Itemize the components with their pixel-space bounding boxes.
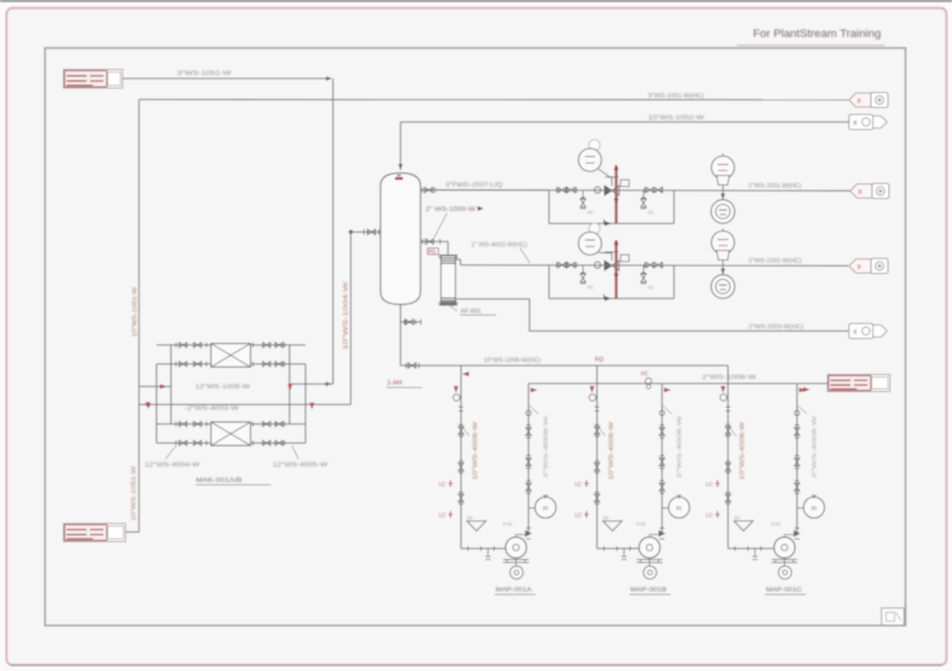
svg-text:AF-001: AF-001	[461, 308, 482, 315]
svg-text:10"WS-4006-W: 10"WS-4006-W	[740, 422, 746, 480]
svg-text:X: X	[857, 99, 861, 105]
svg-text:3"WS-1051-W: 3"WS-1051-W	[177, 70, 231, 77]
svg-text:10"WS-4006-W: 10"WS-4006-W	[609, 422, 615, 480]
svg-text:2"WS-1003-W(HC): 2"WS-1003-W(HC)	[749, 324, 804, 331]
svg-text:3"P&ID-2007-LIQ: 3"P&ID-2007-LIQ	[446, 182, 503, 189]
svg-text:X: X	[853, 121, 857, 127]
svg-text:10"WS-1001-W: 10"WS-1001-W	[132, 287, 139, 337]
svg-text:2"WS-4008-W: 2"WS-4008-W	[677, 415, 683, 478]
svg-text:1" WS-4002-W(HC): 1" WS-4002-W(HC)	[471, 242, 527, 249]
svg-text:10"WS-1051-W: 10"WS-1051-W	[131, 466, 138, 521]
svg-text:12"WS-4004-W: 12"WS-4004-W	[145, 462, 200, 469]
svg-text:ST: ST	[603, 516, 609, 521]
svg-text:LC: LC	[575, 513, 582, 519]
svg-text:PI: PI	[812, 507, 817, 513]
svg-text:3"WS-1051-W(HC): 3"WS-1051-W(HC)	[648, 93, 704, 100]
svg-text:2"WS-4008-W: 2"WS-4008-W	[812, 415, 818, 478]
svg-text:1-AH: 1-AH	[387, 380, 402, 387]
svg-text:MAP-001A: MAP-001A	[496, 587, 533, 594]
svg-text:2"WS-1002-W(HC): 2"WS-1002-W(HC)	[749, 258, 802, 265]
svg-text:PI: PI	[543, 507, 548, 513]
svg-text:LC: LC	[439, 482, 446, 488]
svg-text:MAP-001B: MAP-001B	[631, 587, 668, 594]
svg-text:ST: ST	[734, 516, 740, 521]
svg-text:12"WS-1005-W: 12"WS-1005-W	[195, 384, 250, 391]
svg-text:X: X	[853, 330, 857, 336]
svg-text:10"WS-1004-W: 10"WS-1004-W	[343, 282, 350, 350]
svg-text:X: X	[857, 265, 861, 271]
svg-text:2" WS-1000-W: 2" WS-1000-W	[426, 206, 476, 213]
svg-text:PI: PI	[677, 507, 682, 513]
svg-text:-2"WS-4003-W: -2"WS-4003-W	[185, 405, 239, 412]
svg-text:FO: FO	[595, 358, 604, 364]
svg-text:10"WS-4006-W: 10"WS-4006-W	[473, 422, 479, 480]
svg-text:MAK-001A/B: MAK-001A/B	[196, 477, 243, 484]
svg-text:LC: LC	[439, 513, 446, 519]
svg-text:MAP-001C: MAP-001C	[766, 587, 802, 594]
svg-text:P-01: P-01	[772, 522, 782, 527]
svg-text:FC: FC	[588, 210, 594, 215]
svg-text:FC: FC	[588, 285, 594, 290]
svg-text:ST: ST	[467, 516, 473, 521]
svg-text:FC: FC	[648, 210, 654, 215]
svg-text:2"WS-1008-W: 2"WS-1008-W	[702, 374, 756, 381]
svg-text:12"WS-4005-W: 12"WS-4005-W	[273, 462, 328, 469]
svg-text:FC: FC	[648, 285, 654, 290]
svg-text:FC: FC	[641, 372, 648, 378]
svg-text:LC: LC	[706, 482, 713, 488]
svg-text:2"WS-4008-W: 2"WS-4008-W	[544, 415, 550, 478]
svg-text:For PlantStream Training: For PlantStream Training	[753, 28, 881, 40]
svg-text:P-01: P-01	[637, 522, 647, 527]
svg-text:X: X	[858, 190, 862, 196]
svg-text:10"WS-1006-W(HC): 10"WS-1006-W(HC)	[484, 357, 541, 364]
svg-text:LC: LC	[575, 482, 582, 488]
svg-text:P-01: P-01	[503, 522, 513, 527]
svg-text:LC: LC	[706, 513, 713, 519]
svg-text:10"WS-1002-W: 10"WS-1002-W	[648, 115, 704, 122]
svg-text:2"WS-1001-W(HC): 2"WS-1001-W(HC)	[749, 183, 802, 190]
